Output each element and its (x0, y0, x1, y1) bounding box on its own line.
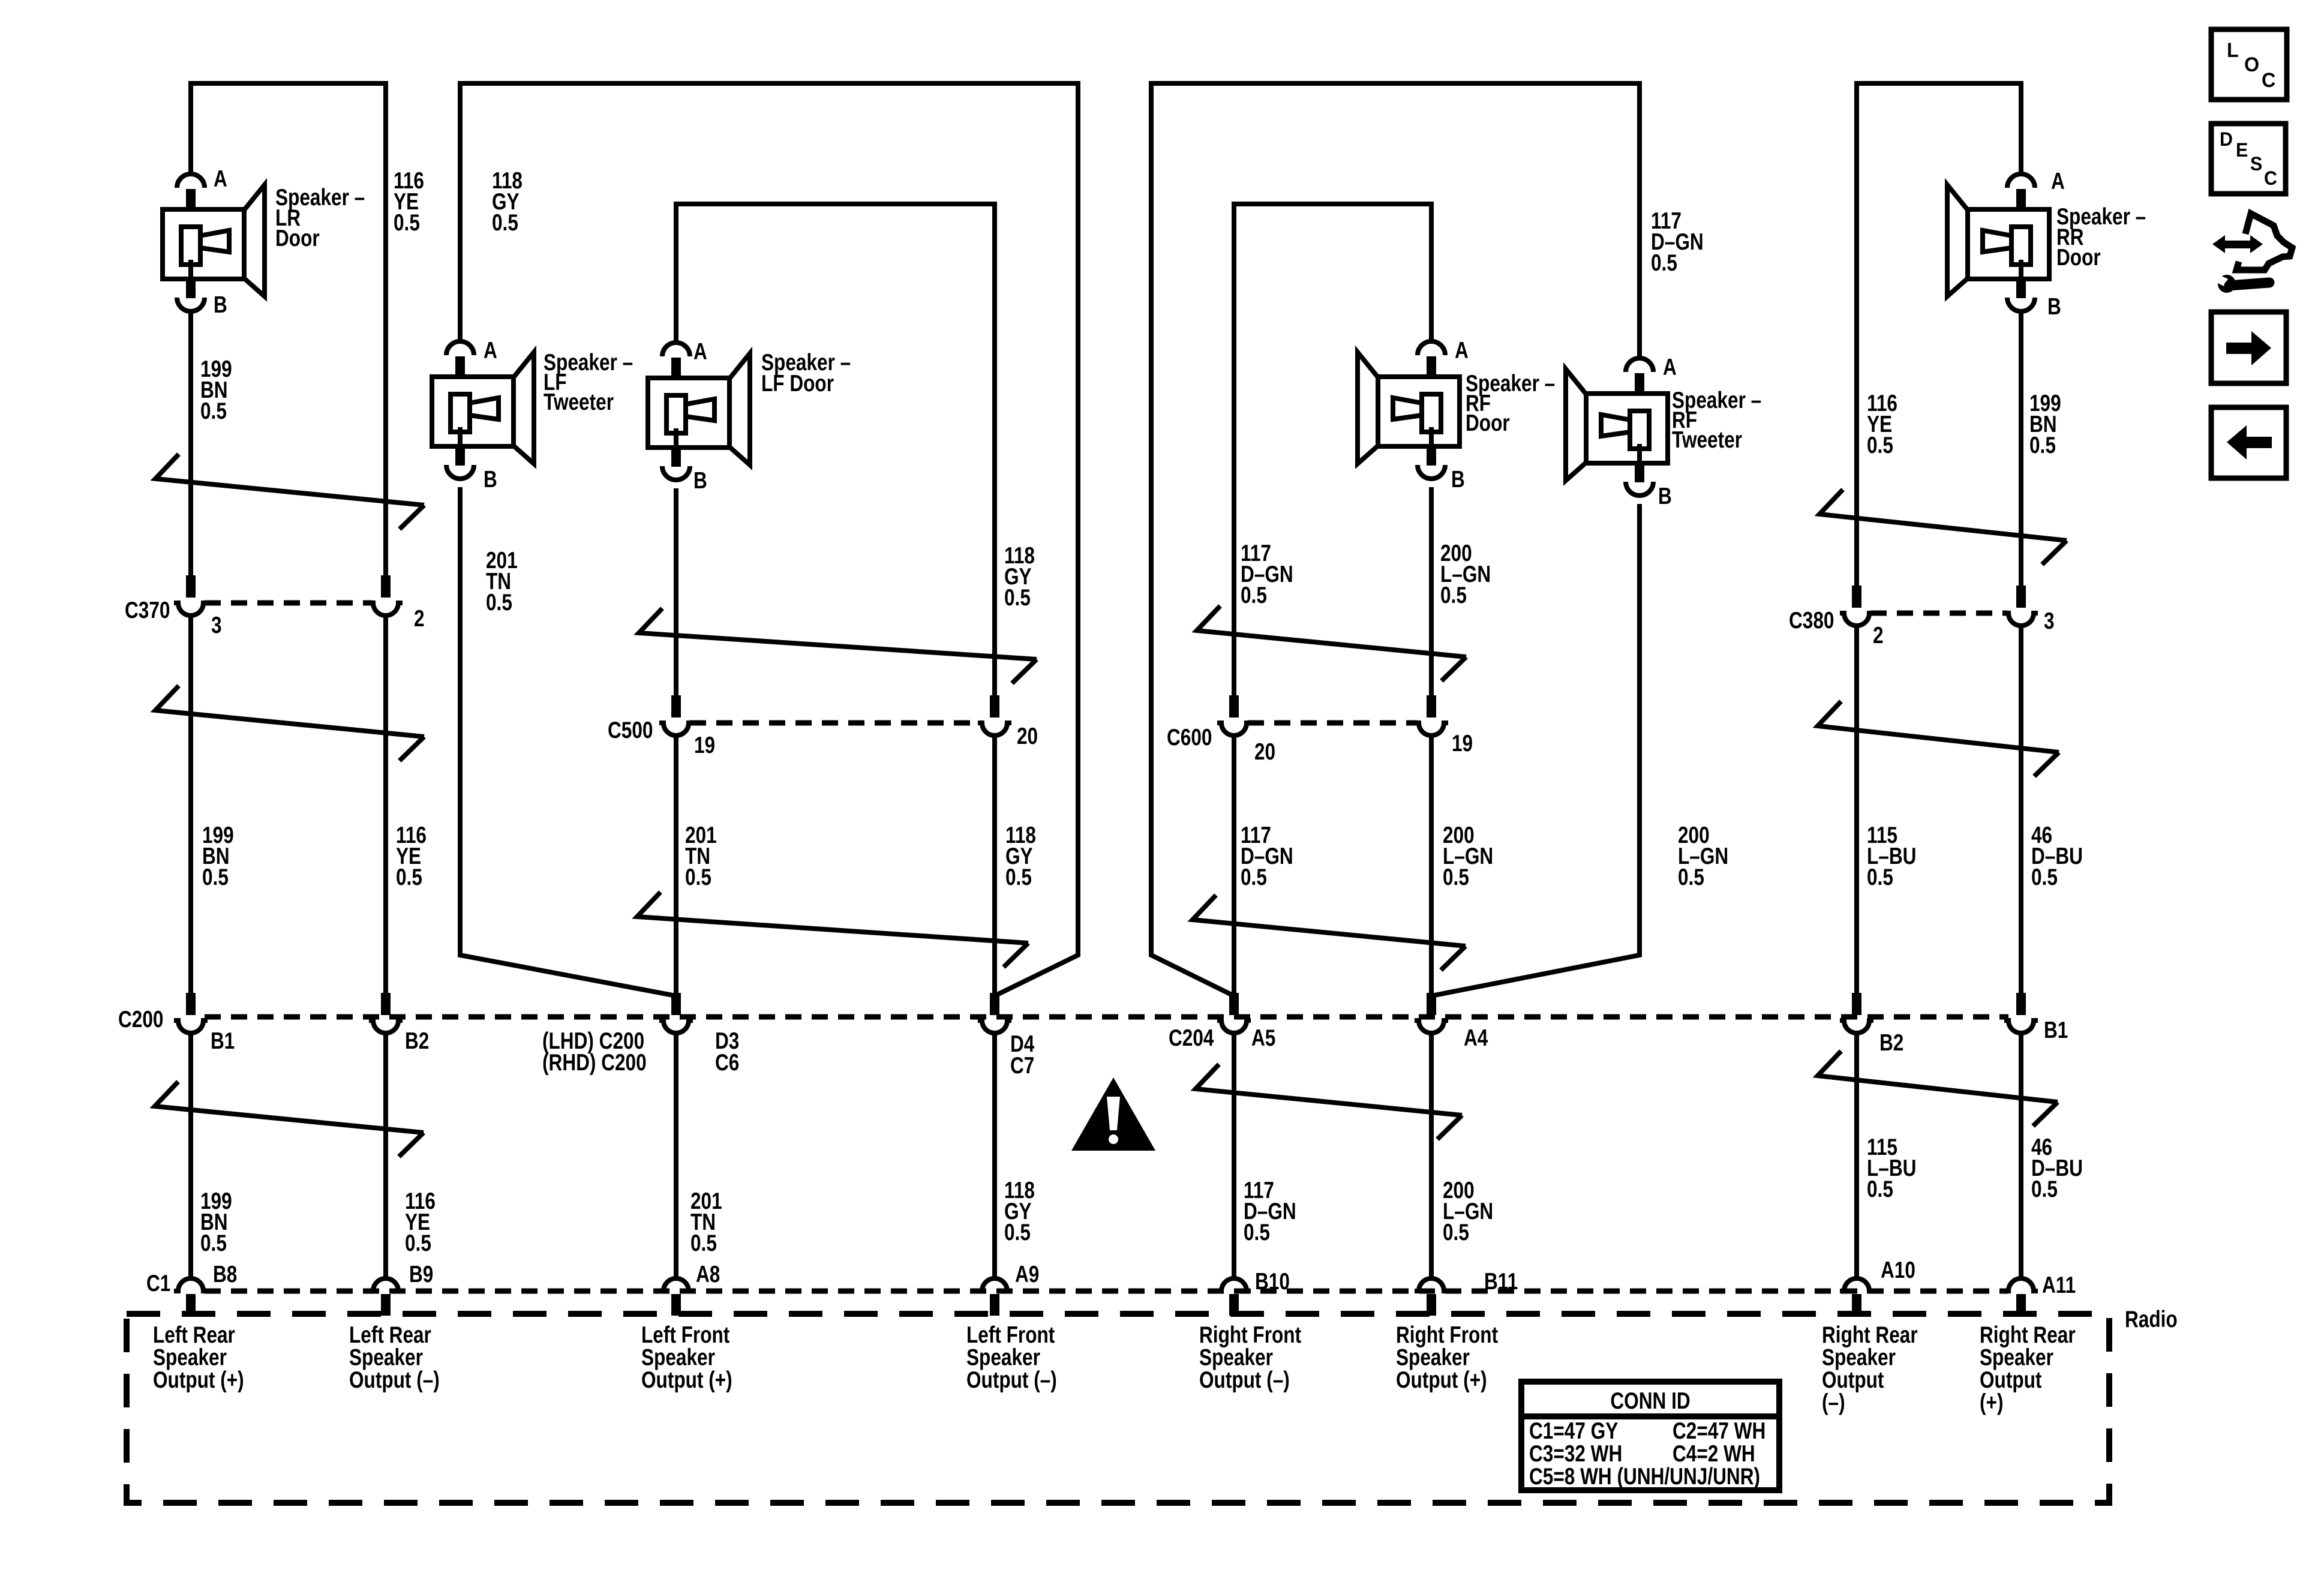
connector C200 pin D4 (978, 993, 1011, 1033)
svg-text:A: A (1455, 337, 1469, 364)
speaker RR Door (1947, 174, 2049, 311)
pin A label LR Door (214, 166, 227, 192)
svg-text:118GY0.5: 118GY0.5 (1005, 822, 1036, 890)
svg-text:B2: B2 (1879, 1029, 1903, 1056)
letter O (2244, 53, 2259, 76)
right arrow icon box (2211, 312, 2286, 383)
crossing over RF wires mid (1193, 895, 1466, 970)
wire 117 D-GN to radio (1232, 1033, 1236, 1277)
pin label B9 (409, 1261, 433, 1287)
pin number 2 C380 (1873, 622, 1884, 649)
label C380 (1789, 607, 1834, 634)
pin label B2 right (1879, 1029, 1903, 1056)
label C370 (125, 597, 170, 623)
label speaker RF Door (1466, 370, 1555, 436)
conn id column 1 (1529, 1418, 1760, 1490)
crossing over RR wires lower (1818, 1051, 2058, 1126)
label Right Rear Speaker Output - (1822, 1322, 1918, 1415)
CONN ID table (1521, 1382, 1779, 1490)
conn id column 2 (1673, 1418, 1765, 1467)
label Right Front Speaker Output - (1199, 1322, 1301, 1393)
wire label 200 L-GN 0.5 tweeter (1678, 822, 1728, 890)
svg-text:(LHD) C200(RHD) C200: (LHD) C200(RHD) C200 (542, 1028, 647, 1076)
pin label B1 (211, 1028, 235, 1054)
svg-text:19: 19 (1452, 730, 1473, 757)
svg-text:B: B (693, 467, 707, 494)
svg-text:118GY0.5: 118GY0.5 (492, 167, 523, 236)
connector C1 pin A10 (1840, 1278, 1873, 1316)
svg-text:19: 19 (694, 732, 715, 758)
pin label A8 (696, 1261, 720, 1287)
letter E (2236, 139, 2248, 161)
wire label 118 GY 0.5 low (1004, 1177, 1035, 1245)
svg-text:O: O (2244, 53, 2259, 76)
label Left Rear Speaker Output + (153, 1322, 244, 1393)
label Left Rear Speaker Output - (349, 1322, 440, 1393)
wire label 201 TN 0.5 LF tweeter (486, 547, 518, 616)
pin label A10 (1881, 1257, 1915, 1283)
svg-text:A: A (484, 337, 497, 364)
svg-text:3: 3 (2044, 608, 2055, 634)
wire 201 TN from LF door B to C500-19 (674, 488, 678, 697)
wire label 116 YE 0.5 mid (396, 822, 427, 890)
connector C1 pin B11 (1415, 1278, 1448, 1316)
wire label 115 L-BU 0.5 low (1867, 1134, 1916, 1202)
label C204 (1169, 1025, 1214, 1051)
svg-text:A5: A5 (1251, 1025, 1275, 1051)
svg-text:S: S (2250, 153, 2262, 175)
wire RF outer loop (1151, 83, 1640, 996)
label C200 (118, 1006, 163, 1032)
svg-text:B: B (1658, 483, 1672, 509)
svg-text:Radio: Radio (2125, 1306, 2178, 1332)
pin number 20 C600 (1254, 739, 1275, 765)
wire label 200 L-GN 0.5 inner (1440, 540, 1491, 608)
LOC icon box (2211, 29, 2287, 100)
svg-text:A11: A11 (2042, 1272, 2076, 1298)
label speaker LF Tweeter (544, 349, 633, 415)
svg-text:C1: C1 (146, 1270, 170, 1296)
wire RF inner loop (1234, 204, 1431, 697)
wire LF outer loop (460, 83, 1078, 996)
radio box (127, 1314, 2109, 1503)
wire 118 GY to radio (992, 1033, 997, 1277)
wire label 199 BN 0.5 low (200, 1188, 232, 1256)
speaker LF Tweeter (432, 341, 534, 479)
letter D (2220, 128, 2233, 150)
pin label A11 (2042, 1272, 2076, 1298)
wire label 116 YE 0.5 top (394, 167, 424, 236)
svg-text:118GY0.5: 118GY0.5 (1004, 1177, 1035, 1245)
crossing over RF wires lower (1196, 1064, 1462, 1139)
pin label D3 C6 (715, 1028, 739, 1076)
svg-text:B11: B11 (1484, 1268, 1518, 1295)
connector C204 pin A5 (1217, 993, 1251, 1033)
wire RR top loop (1857, 83, 2021, 600)
connector C200 pin D3 (659, 993, 693, 1033)
wire 201 TN to radio (674, 1033, 678, 1277)
svg-text:B: B (484, 466, 497, 493)
pin A label LF Tweeter (484, 337, 497, 364)
crossing over LF wires upper (639, 608, 1037, 683)
letter S (2250, 153, 2262, 175)
crossing over LR wires upper (155, 454, 424, 529)
wire 115 L-BU C380-2 to C200-B2 (1854, 626, 1859, 997)
pin label B10 (1255, 1268, 1290, 1295)
svg-text:118GY0.5: 118GY0.5 (1004, 542, 1035, 611)
pin label A9 (1015, 1261, 1039, 1287)
svg-text:B9: B9 (409, 1261, 433, 1287)
wire 118 GY C500-20 to C200-D4 (992, 736, 997, 997)
pin B label LF Door (693, 467, 707, 494)
wire label 115 L-BU 0.5 mid (1867, 822, 1916, 890)
crossing over RR wires upper (1819, 490, 2067, 565)
wire label 46 D-BU 0.5 low (2031, 1134, 2083, 1202)
connector C1 pin A9 (978, 1278, 1011, 1316)
wire 199 BN from LR door B to C370-3 (188, 311, 193, 591)
pin A label RF Door (1455, 337, 1469, 364)
pin label A5 (1251, 1025, 1275, 1051)
svg-text:CONN ID: CONN ID (1610, 1388, 1690, 1414)
wire 200 L-GN from RF tweeter B to A4 (1431, 504, 1640, 996)
wire 200 L-GN to radio (1429, 1033, 1434, 1277)
connector C380 pin 2 (1840, 586, 1873, 626)
wire LR top loop (191, 83, 386, 591)
svg-text:C380: C380 (1789, 607, 1834, 634)
wire 200 L-GN C600-19 to C204-A4 (1429, 736, 1434, 997)
connector C200 pin B2 right (1840, 993, 1873, 1033)
label Right Front Speaker Output + (1396, 1322, 1498, 1393)
wire label 201 TN 0.5 mid (685, 822, 717, 890)
connector C380 dashed line (1870, 611, 2007, 616)
connector C600 pin 19 (1415, 695, 1448, 736)
wire label 117 D-GN 0.5 top (1651, 208, 1704, 276)
connector C1 pin B10 (1217, 1278, 1251, 1316)
svg-text:D: D (2220, 128, 2233, 150)
svg-text:C: C (2264, 167, 2277, 189)
left arrow icon box (2211, 407, 2286, 478)
pin label B2 (405, 1028, 429, 1054)
pin number 2 C370 (414, 605, 425, 632)
svg-text:A: A (1663, 354, 1677, 380)
connector C370 dashed line (205, 601, 373, 606)
wire 117 D-GN C600-20 to C204-A5 (1232, 736, 1236, 997)
label speaker LR Door (275, 184, 365, 251)
svg-text:B: B (214, 292, 227, 318)
svg-text:C500: C500 (608, 717, 653, 743)
connector C370 pin 3 (174, 575, 208, 616)
pin A label LF Door (693, 338, 707, 365)
wire label 200 L-GN 0.5 mid (1443, 822, 1493, 890)
wire label 118 GY 0.5 inner (1004, 542, 1035, 611)
connector C500 pin 20 (978, 695, 1011, 736)
svg-text:B1: B1 (2044, 1017, 2068, 1043)
wire label 117 D-GN 0.5 mid (1241, 822, 1293, 890)
svg-text:A4: A4 (1464, 1025, 1488, 1051)
label speaker RR Door (2056, 203, 2146, 271)
pin A label RF Tweeter (1663, 354, 1677, 380)
letter C (2262, 69, 2275, 92)
pin B label LR Door (214, 292, 227, 318)
label Right Rear Speaker Output + (1980, 1322, 2076, 1415)
pin A label RR Door (2051, 168, 2065, 194)
speaker LR Door (163, 174, 265, 311)
svg-text:B: B (2047, 293, 2061, 320)
svg-text:B: B (1451, 466, 1465, 493)
pin label B1 right (2044, 1017, 2068, 1043)
label Left Front Speaker Output + (641, 1322, 732, 1393)
label speaker LF Door (761, 349, 851, 397)
svg-text:C200: C200 (118, 1006, 163, 1032)
svg-text:A: A (693, 338, 707, 365)
svg-text:E: E (2236, 139, 2248, 161)
svg-text:A8: A8 (696, 1261, 720, 1287)
svg-text:C370: C370 (125, 597, 170, 623)
svg-text:20: 20 (1254, 739, 1275, 765)
svg-text:C2=47 WHC4=2 WH: C2=47 WHC4=2 WH (1673, 1418, 1765, 1467)
connector C600 pin 20 (1217, 695, 1251, 736)
wire label 118 GY 0.5 top (492, 167, 523, 236)
svg-text:A9: A9 (1015, 1261, 1039, 1287)
connector C200 pin B2 (369, 993, 403, 1033)
letter C2 (2264, 167, 2277, 189)
label C1 (146, 1270, 170, 1296)
svg-text:A: A (2051, 168, 2065, 194)
svg-text:D3C6: D3C6 (715, 1028, 739, 1076)
connector C1 dashed line (205, 1289, 2008, 1294)
connector C204 pin A4 (1415, 993, 1448, 1033)
crossing over LF wires lower (637, 892, 1028, 967)
connector C200 pin B1 right (2004, 993, 2038, 1033)
wire label 117 D-GN 0.5 inner (1241, 540, 1293, 608)
svg-text:L: L (2227, 39, 2239, 62)
warning triangle (1071, 1077, 1155, 1151)
connector C500 pin 19 (659, 695, 693, 736)
svg-text:C600: C600 (1167, 724, 1212, 751)
letter L (2227, 39, 2239, 62)
label CONN ID (1610, 1388, 1690, 1414)
pin number 3 C380 (2044, 608, 2055, 634)
wire 199 BN from RR door B to C380-3 (2019, 311, 2023, 600)
crossing over LR wires lower (155, 1082, 424, 1157)
svg-text:B2: B2 (405, 1028, 429, 1054)
svg-text:C204: C204 (1169, 1025, 1214, 1051)
wire label 118 GY 0.5 mid (1005, 822, 1036, 890)
pin label B8 (213, 1261, 237, 1287)
speaker RF Tweeter (1566, 358, 1668, 496)
label LHD RHD C200 (542, 1028, 647, 1076)
label C500 (608, 717, 653, 743)
svg-text:D4C7: D4C7 (1010, 1031, 1035, 1079)
speaker LF Door (648, 343, 750, 480)
svg-text:2: 2 (414, 605, 425, 632)
wire label 200 L-GN 0.5 low (1443, 1177, 1493, 1245)
wire 199 BN to radio (188, 1033, 193, 1277)
svg-text:20: 20 (1017, 723, 1038, 749)
svg-text:2: 2 (1873, 622, 1884, 649)
pin number 3 C370 (211, 612, 222, 638)
pin B label RF Door (1451, 466, 1465, 493)
connector C1 pin A11 (2004, 1278, 2038, 1316)
speaker RF Door (1358, 341, 1460, 479)
wire label 46 D-BU 0.5 mid (2031, 822, 2083, 890)
svg-text:A: A (214, 166, 227, 192)
wire label 201 TN 0.5 low (690, 1188, 722, 1256)
connector C600 dashed line (1248, 721, 1418, 726)
svg-text:B8: B8 (213, 1261, 237, 1287)
svg-text:C: C (2262, 69, 2275, 92)
connector C370 pin 2 (369, 575, 403, 616)
pin B label RF Tweeter (1658, 483, 1672, 509)
wire 201 TN C500-19 to C200-D3 (674, 736, 678, 997)
connector C1 pin A8 (659, 1278, 693, 1316)
connector C200/C204 dashed line (205, 1014, 2008, 1020)
wire 46 D-BU C380-3 to C200-B1 (2019, 626, 2023, 997)
wire LF inner loop (676, 204, 995, 697)
wire 46 D-BU to radio (2019, 1033, 2023, 1277)
connector C380 pin 3 (2004, 586, 2038, 626)
svg-text:B1: B1 (211, 1028, 235, 1054)
wire 201 TN from LF tweeter B to D3 (460, 487, 676, 996)
crossing over LR wires mid (155, 686, 424, 761)
wire label 199 BN 0.5 RR (2029, 390, 2061, 458)
connector C1 pin B9 (369, 1278, 403, 1316)
connector C200 pin B1 (174, 993, 208, 1033)
crossing over RF wires upper (1197, 606, 1466, 681)
wire 200 L-GN from RF door B to C600-19 (1429, 487, 1434, 697)
DESC icon box (2211, 124, 2286, 194)
pin number 20 C500 (1017, 723, 1038, 749)
label Left Front Speaker Output - (966, 1322, 1057, 1393)
pin number 19 C600 (1452, 730, 1473, 757)
connector C500 dashed line (690, 721, 981, 726)
wire label 199 BN 0.5 mid (202, 822, 234, 890)
pin label B11 (1484, 1268, 1518, 1295)
crossing over RR wires mid (1818, 701, 2059, 776)
label speaker RF Tweeter (1672, 387, 1761, 453)
connector C1 pin B8 (174, 1278, 208, 1316)
wire label 116 YE 0.5 RR (1867, 390, 1897, 458)
pin label D4 C7 (1010, 1031, 1035, 1079)
pin B label RR Door (2047, 293, 2061, 320)
wire 115 L-BU to radio (1854, 1033, 1859, 1277)
label C600 (1167, 724, 1212, 751)
wire 199 BN C370-3 to C200-B1 (188, 616, 193, 997)
wire label 116 YE 0.5 low (405, 1188, 436, 1256)
vehicle location icon (2212, 214, 2292, 293)
pin number 19 C500 (694, 732, 715, 758)
wire 116 YE to radio (383, 1033, 388, 1277)
wire label 117 D-GN 0.5 low (1244, 1177, 1296, 1245)
label Radio (2125, 1306, 2178, 1332)
wire label 199 BN 0.5 LR (200, 356, 232, 424)
svg-text:A10: A10 (1881, 1257, 1915, 1283)
wire 116 YE C370-2 to C200-B2 (383, 616, 388, 997)
pin label A4 (1464, 1025, 1488, 1051)
svg-text:3: 3 (211, 612, 222, 638)
svg-text:B10: B10 (1255, 1268, 1290, 1295)
pin B label LF Tweeter (484, 466, 497, 493)
